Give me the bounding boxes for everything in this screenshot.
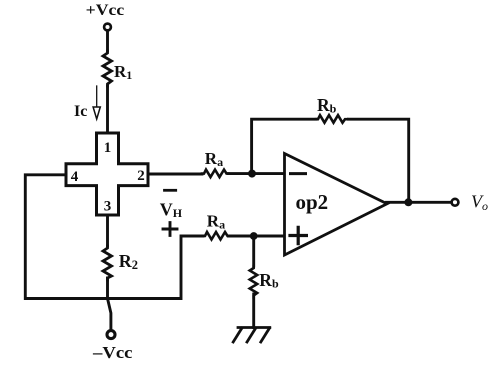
svg-text:op2: op2 bbox=[296, 190, 329, 214]
svg-text:Ic: Ic bbox=[74, 103, 87, 120]
svg-text:3: 3 bbox=[104, 199, 112, 215]
svg-text:+Vcc: +Vcc bbox=[86, 2, 125, 19]
svg-text:–Vcc: –Vcc bbox=[92, 343, 133, 362]
svg-text:4: 4 bbox=[71, 169, 79, 185]
svg-text:2: 2 bbox=[137, 168, 145, 184]
svg-text:1: 1 bbox=[104, 140, 112, 156]
